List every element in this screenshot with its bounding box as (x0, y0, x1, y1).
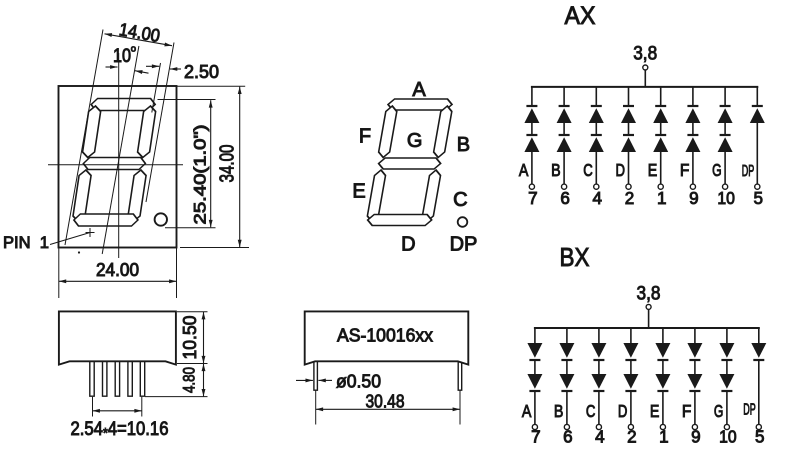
pin lead 5 (end view) (140, 362, 144, 397)
svg-text:A: A (522, 401, 532, 421)
terminal pin 6 (BX) (564, 424, 569, 429)
segment G (front view) (82, 158, 146, 170)
wire BX column D lower (630, 391, 632, 425)
LED DP1 cathode bar (BX) (753, 359, 764, 361)
angle arrow left (10 deg) (106, 66, 118, 68)
extension line middle (10.50/4.80) (177, 363, 208, 365)
LED A2 (AX) (524, 137, 539, 152)
svg-text:C: C (453, 189, 467, 211)
LED B1 cathode bar (BX) (561, 359, 572, 361)
svg-text:3,8: 3,8 (633, 44, 657, 65)
terminal pin 7 (AX) (529, 184, 534, 189)
dimension line 24.00 (59, 280, 177, 282)
wire BX column E lower (662, 391, 664, 425)
LED A1 (AX) (524, 108, 539, 123)
terminal 3,8 (AX) (643, 65, 648, 70)
svg-text:25.40(1.0"): 25.40(1.0") (191, 125, 210, 225)
LED F2 cathode bar (AX) (687, 134, 698, 136)
wire BX bus (534, 327, 760, 329)
pin lead 4 (end view) (128, 362, 132, 397)
LED D2 (AX) (621, 137, 636, 152)
diameter arrow right (318, 379, 332, 381)
svg-text:E: E (648, 160, 658, 180)
LED F2 cathode bar (BX) (689, 390, 700, 392)
svg-text:DP: DP (743, 402, 756, 419)
side view body (front side view) (305, 311, 469, 364)
LED D2 cathode bar (BX) (625, 390, 636, 392)
wire AX column C lower (595, 152, 597, 184)
LED F1 cathode bar (BX) (689, 359, 700, 361)
LED A1 cathode bar (BX) (529, 359, 540, 361)
LED G1 (AX) (718, 108, 733, 123)
LED DP1 cathode bar (AX) (752, 105, 763, 107)
terminal pin 4 (BX) (596, 424, 601, 429)
wire AX column E upper (660, 87, 662, 105)
decimal point DP (segment diagram) (458, 217, 468, 227)
wire AX column A upper (531, 87, 533, 105)
LED D1 (BX) (623, 343, 638, 358)
LED D2 (BX) (623, 374, 638, 389)
dimension line 34.00 (239, 87, 241, 248)
LED G2 (BX) (719, 374, 734, 389)
wire AX column G upper (724, 87, 726, 105)
wire BX column A middle (534, 360, 536, 374)
LED E2 (AX) (653, 137, 668, 152)
extension line right pin (30.48) (459, 391, 461, 425)
LED F1 (AX) (685, 108, 700, 123)
wire AX column F middle (692, 123, 694, 134)
decimal point DP (front view) (155, 213, 167, 225)
wire AX column D middle (628, 123, 630, 134)
front view 7-segment digit (72, 99, 158, 227)
LED F1 (BX) (687, 343, 702, 358)
extension line segment edge (2.50) (152, 63, 161, 113)
svg-text:9: 9 (691, 427, 701, 447)
wire BX column DP upper (758, 328, 760, 343)
svg-text:4.80: 4.80 (181, 367, 199, 393)
svg-text:E: E (352, 181, 365, 203)
wire AX column B upper (563, 87, 565, 105)
wire AX column B middle (563, 123, 565, 134)
terminal pin 7 (BX) (532, 424, 537, 429)
dimension arrow 2.50 left (146, 65, 159, 67)
extension line bottom (4.80) (145, 396, 208, 398)
dimension line 4.80 (203, 364, 205, 397)
wire BX column D middle (630, 360, 632, 374)
diameter arrow left (296, 379, 313, 381)
terminal pin 2 (AX) (626, 184, 631, 189)
wire BX column D upper (630, 328, 632, 343)
svg-text:BX: BX (560, 242, 590, 272)
wire BX column C upper (598, 328, 600, 343)
svg-text:AX: AX (565, 2, 596, 30)
slanted digit centerline (10 deg) (102, 46, 139, 254)
terminal pin 1 (AX) (658, 184, 663, 189)
wire AX column G middle (724, 123, 726, 134)
LED G1 (BX) (719, 343, 734, 358)
LED D1 cathode bar (AX) (623, 105, 634, 107)
angle arrow right (10 deg) (135, 71, 149, 74)
extension line right (14.00 / 2.50) (146, 43, 174, 203)
dimension line 2.54*4 (93, 410, 142, 412)
LED G2 cathode bar (AX) (720, 134, 731, 136)
wire AX column C middle (595, 123, 597, 134)
segment E (front view) (72, 170, 92, 222)
terminal pin 5 (AX) (755, 184, 760, 189)
wire BX column E middle (662, 360, 664, 374)
extension line top (10.50) (177, 311, 208, 313)
pin lead right (side view) (458, 362, 462, 390)
terminal pin 1 (BX) (660, 424, 665, 429)
svg-text:10.50: 10.50 (179, 316, 200, 360)
segment B (segment diagram) (433, 106, 453, 158)
wire AX column G lower (724, 152, 726, 184)
segment C (front view) (127, 170, 147, 222)
leader line PIN 1 (50, 233, 90, 245)
segment E (segment diagram) (366, 170, 386, 222)
wire BX column B upper (566, 328, 568, 343)
LED E2 (BX) (655, 374, 670, 389)
svg-text:7: 7 (531, 427, 541, 447)
svg-text:1: 1 (657, 188, 667, 208)
svg-text:DP: DP (742, 163, 755, 180)
vertical centerline (118, 53, 120, 258)
segment D (front view) (73, 214, 139, 226)
LED B1 (BX) (559, 343, 574, 358)
svg-text:10: 10 (719, 427, 737, 447)
wire AX column F upper (692, 87, 694, 105)
wire BX column F lower (694, 391, 696, 425)
svg-text:B: B (551, 160, 561, 180)
segment A (front view) (90, 99, 156, 111)
wire AX column B lower (563, 152, 565, 184)
extension line pin 5 center (141, 397, 143, 417)
svg-text:34.00: 34.00 (217, 145, 239, 183)
svg-text:5: 5 (754, 188, 764, 208)
LED C2 cathode bar (AX) (591, 134, 602, 136)
svg-text:F: F (359, 126, 371, 148)
wire AX column E lower (660, 152, 662, 184)
wire AX column E middle (660, 123, 662, 134)
LED E2 cathode bar (BX) (657, 390, 668, 392)
LED B2 (BX) (559, 374, 574, 389)
wire BX column A lower (534, 391, 536, 425)
svg-text:4: 4 (593, 188, 603, 208)
extension line top (25.40) (158, 99, 216, 101)
dimension line 14.00 (105, 34, 173, 46)
svg-text:AS-10016xx: AS-10016xx (337, 325, 434, 346)
pin lead 3 (end view) (115, 362, 119, 397)
extension line bottom (25.40) (165, 227, 216, 229)
svg-text:2: 2 (625, 188, 635, 208)
wire AX bus (531, 86, 758, 88)
LED DP1 (BX) (751, 343, 766, 358)
svg-text:10: 10 (113, 46, 131, 67)
dimension line 30.48 (316, 408, 460, 410)
svg-text:2: 2 (627, 427, 637, 447)
segment F (front view) (82, 106, 102, 158)
LED B2 (AX) (557, 137, 572, 152)
terminal pin 4 (AX) (594, 184, 599, 189)
LED G2 (AX) (718, 137, 733, 152)
segment C (segment diagram) (421, 170, 441, 222)
wire BX column G middle (726, 360, 728, 374)
segment A (segment diagram) (387, 99, 453, 110)
wire BX column F upper (694, 328, 696, 343)
wire 3,8 to bus (BX) (648, 310, 650, 328)
pin lead 2 (end view) (103, 362, 107, 397)
svg-text:30.48: 30.48 (366, 391, 405, 412)
terminal 3,8 (BX) (646, 304, 651, 309)
LED A2 cathode bar (BX) (529, 390, 540, 392)
terminal pin 9 (AX) (690, 184, 695, 189)
segment identification digit (366, 99, 454, 226)
extension line pin 1 center (92, 397, 94, 417)
LED B1 (AX) (557, 108, 572, 123)
extension line left (24.00) (58, 248, 60, 299)
svg-text:o: o (131, 44, 136, 55)
wire BX column C middle (598, 360, 600, 374)
segment D (segment diagram) (367, 215, 433, 226)
LED B2 cathode bar (AX) (559, 134, 570, 136)
svg-text:7: 7 (528, 188, 538, 208)
LED A2 (BX) (527, 374, 542, 389)
svg-text:E: E (650, 401, 660, 421)
LED D1 (AX) (621, 108, 636, 123)
wire AX column D upper (628, 87, 630, 105)
svg-text:6: 6 (560, 188, 570, 208)
segment G (segment diagram) (378, 158, 442, 169)
svg-text:ø0.50: ø0.50 (336, 371, 381, 392)
wire AX column A middle (531, 123, 533, 134)
wire BX column F middle (694, 360, 696, 374)
LED G2 cathode bar (BX) (721, 390, 732, 392)
svg-text:D: D (616, 160, 626, 180)
terminal pin 6 (AX) (562, 184, 567, 189)
horizontal centerline (48, 164, 183, 166)
svg-text:2.54*4=10.16: 2.54*4=10.16 (71, 419, 169, 441)
LED C1 cathode bar (BX) (593, 359, 604, 361)
wire AX column DP upper (756, 87, 758, 105)
LED A2 cathode bar (AX) (526, 134, 537, 136)
segment F (segment diagram) (378, 106, 398, 158)
LED G1 cathode bar (BX) (721, 359, 732, 361)
wire AX column A lower (531, 152, 533, 184)
svg-text:F: F (680, 160, 690, 180)
segment B (front view) (137, 106, 157, 158)
LED E1 cathode bar (AX) (655, 105, 666, 107)
LED E2 cathode bar (AX) (655, 134, 666, 136)
LED C1 cathode bar (AX) (591, 105, 602, 107)
wire AX column D lower (628, 152, 630, 184)
wire BX column E upper (662, 328, 664, 343)
dimension line 10.50 (203, 312, 205, 363)
svg-text:B: B (554, 401, 564, 421)
LED F2 (AX) (685, 137, 700, 152)
wire AX column F lower (692, 152, 694, 184)
extension line left (14.00) (65, 30, 103, 246)
svg-text:1: 1 (659, 427, 669, 447)
svg-text:5: 5 (755, 427, 765, 447)
svg-text:G: G (407, 130, 423, 152)
terminal pin 10 (AX) (723, 184, 728, 189)
svg-text:A: A (412, 79, 426, 101)
wire BX column B lower (566, 391, 568, 425)
svg-text:C: C (583, 160, 593, 180)
extension line bottom (34.00) (180, 247, 249, 249)
LED E1 cathode bar (BX) (657, 359, 668, 361)
svg-text:9: 9 (689, 188, 699, 208)
extension line left pin (30.48) (315, 391, 317, 425)
LED A1 (BX) (527, 343, 542, 358)
wire 3,8 to bus (AX) (644, 70, 646, 87)
LED E1 (BX) (655, 343, 670, 358)
svg-text:PIN 1: PIN 1 (3, 234, 49, 252)
pin lead left (side view) (314, 362, 318, 390)
LED D2 cathode bar (AX) (623, 134, 634, 136)
svg-text:C: C (586, 401, 596, 421)
LED F2 (BX) (687, 374, 702, 389)
extension line top (34.00) (177, 85, 246, 87)
svg-text:3,8: 3,8 (637, 284, 661, 305)
LED A1 cathode bar (AX) (526, 105, 537, 107)
svg-text:D: D (618, 401, 628, 421)
svg-text:G: G (714, 401, 724, 421)
LED B2 cathode bar (BX) (561, 390, 572, 392)
wire BX column A upper (534, 328, 536, 343)
dimension line 25.40 (210, 100, 212, 227)
wire BX column G lower (726, 391, 728, 425)
wire BX column B middle (566, 360, 568, 374)
svg-text:4: 4 (595, 427, 605, 447)
LED C2 (BX) (591, 374, 606, 389)
side view body (end view) (59, 311, 176, 364)
LED C2 cathode bar (BX) (593, 390, 604, 392)
terminal pin 10 (BX) (724, 424, 729, 429)
terminal pin 5 (BX) (756, 424, 761, 429)
LED C2 (AX) (589, 137, 604, 152)
wire AX column C upper (595, 87, 597, 105)
LED DP1 (AX) (750, 108, 765, 123)
front view package outline (59, 86, 177, 248)
dimension arrow 2.50 right (170, 68, 181, 70)
svg-text:D: D (401, 234, 415, 256)
terminal pin 2 (BX) (628, 424, 633, 429)
svg-text:24.00: 24.00 (96, 260, 139, 280)
svg-text:6: 6 (563, 427, 573, 447)
svg-text:F: F (682, 401, 692, 421)
LED E1 (AX) (653, 108, 668, 123)
pin 1 position cross (86, 232, 95, 234)
svg-text:10: 10 (717, 188, 735, 208)
LED C1 (BX) (591, 343, 606, 358)
extension line right (24.00) (176, 248, 178, 299)
pin lead 1 (end view) (90, 362, 94, 397)
svg-text:B: B (457, 134, 470, 156)
LED F1 cathode bar (AX) (687, 105, 698, 107)
terminal pin 9 (BX) (692, 424, 697, 429)
wire BX column C lower (598, 391, 600, 425)
wire AX column DP lower (756, 123, 758, 184)
svg-text:DP: DP (450, 234, 478, 256)
LED G1 cathode bar (AX) (720, 105, 731, 107)
svg-text:A: A (519, 160, 529, 180)
svg-text:G: G (712, 160, 722, 180)
wire BX column DP lower (758, 360, 760, 425)
LED D1 cathode bar (BX) (625, 359, 636, 361)
LED B1 cathode bar (AX) (559, 105, 570, 107)
svg-text:2.50: 2.50 (184, 62, 219, 82)
wire BX column G upper (726, 328, 728, 343)
LED C1 (AX) (589, 108, 604, 123)
